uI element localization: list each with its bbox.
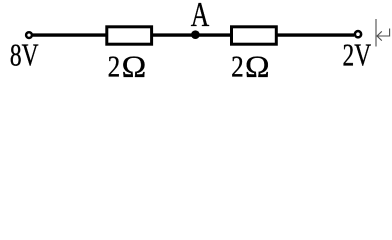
svg-text:2: 2	[108, 49, 121, 84]
cursor mark (return arrow)	[377, 29, 390, 37]
wire	[33, 33, 106, 36]
svg-text:Ω: Ω	[122, 49, 147, 84]
node A (junction dot)	[191, 30, 200, 39]
terminal 8V (open circle)	[26, 32, 32, 38]
svg-text:Ω: Ω	[245, 49, 270, 84]
wire	[153, 33, 230, 36]
svg-text:8V: 8V	[10, 38, 39, 73]
terminal 2V (open circle)	[355, 31, 361, 37]
cursor mark (bar)	[375, 19, 377, 47]
wire	[278, 33, 355, 36]
svg-text:A: A	[191, 0, 210, 34]
resistor R2	[232, 27, 277, 44]
resistor R1	[107, 27, 152, 44]
svg-text:2V: 2V	[343, 38, 372, 73]
svg-text:2: 2	[231, 49, 244, 84]
